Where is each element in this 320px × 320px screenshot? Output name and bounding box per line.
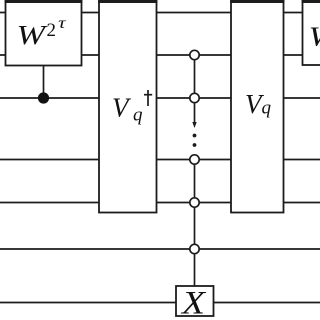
svg-text:q: q — [262, 98, 272, 119]
svg-text:W: W — [309, 22, 320, 52]
svg-text:q: q — [133, 105, 143, 126]
svg-text:X: X — [180, 286, 207, 320]
svg-text:2: 2 — [47, 20, 57, 41]
svg-text:W: W — [17, 20, 49, 50]
